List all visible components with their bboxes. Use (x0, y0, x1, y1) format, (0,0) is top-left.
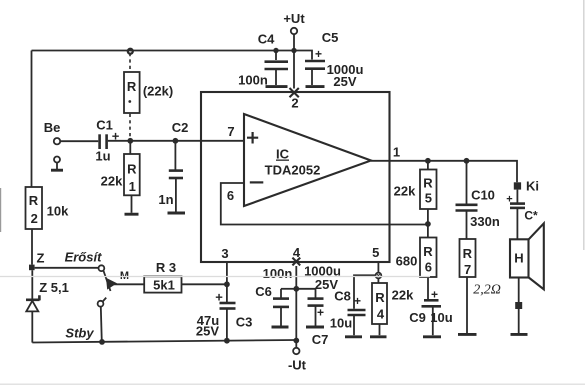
node feedback junction (425, 221, 431, 227)
node Ki square (514, 182, 521, 189)
resistor R1 (101, 143, 140, 213)
wire to C7 (296, 288, 315, 290)
wire pin 4 down to -Ut (295, 266, 297, 348)
svg-text:C2: C2 (172, 120, 189, 135)
terminal -Ut (293, 348, 299, 354)
svg-text:25V: 25V (333, 74, 356, 89)
scan artifact left edge mark (0, 188, 1, 232)
svg-text:5: 5 (425, 191, 432, 206)
node Z square (29, 265, 35, 271)
svg-text:+: + (317, 306, 324, 320)
terminal +Ut (291, 28, 297, 34)
wire Be to C1 (60, 140, 98, 142)
terminal Be input (54, 138, 60, 144)
svg-text:R: R (375, 290, 385, 305)
svg-text:Be: Be (44, 120, 61, 135)
svg-text:2,2Ω: 2,2Ω (473, 283, 501, 298)
node -Ut junction (293, 338, 299, 344)
svg-text:100n: 100n (263, 266, 293, 281)
svg-text:2: 2 (291, 96, 298, 111)
resistor R6 (396, 238, 437, 301)
wire switch M to R3 (114, 283, 145, 285)
svg-text:680: 680 (396, 254, 418, 269)
svg-text:C7: C7 (312, 332, 329, 347)
svg-text:5k1: 5k1 (153, 277, 175, 292)
node Stby junction (99, 339, 105, 345)
node C2 junction (173, 138, 179, 144)
svg-text:10u: 10u (330, 316, 352, 331)
capacitor C5 (305, 30, 363, 89)
capacitor C7 (304, 264, 341, 348)
ground C4 (266, 85, 288, 88)
ground C2 (168, 212, 186, 215)
svg-text:C6: C6 (255, 284, 272, 299)
wire switch to Stby rail (101, 307, 102, 342)
resistor R2 (26, 187, 70, 229)
svg-text:Stby: Stby (65, 326, 94, 341)
wire output pin 1 (371, 161, 517, 183)
svg-text:C*: C* (524, 209, 538, 223)
wire square to ground (518, 309, 520, 333)
svg-text:1u: 1u (95, 149, 110, 164)
svg-text:R: R (127, 162, 137, 177)
op-amp U1 triangle (244, 114, 371, 206)
speaker H (510, 223, 544, 289)
node input junction (127, 138, 133, 144)
scan artifact bottom edge (0, 383, 585, 385)
svg-text:R: R (423, 176, 433, 191)
svg-text:-Ut: -Ut (288, 358, 307, 373)
svg-text:7: 7 (227, 124, 234, 139)
svg-text:R: R (423, 244, 433, 259)
switch lower contact (98, 301, 104, 307)
ground C8 (345, 335, 362, 338)
IC box outline (201, 92, 390, 262)
node R5 junction (425, 158, 431, 164)
svg-text:C1: C1 (96, 118, 113, 133)
zener diode Z 5,1 (26, 280, 69, 311)
svg-text:(22k): (22k) (143, 84, 173, 99)
pin 2 X mark (290, 88, 299, 97)
capacitor C3 (196, 290, 252, 341)
wire +Ut to pin 2 (293, 34, 295, 88)
svg-text:6: 6 (227, 188, 234, 203)
switch arm (103, 271, 110, 292)
svg-text:1: 1 (393, 145, 400, 160)
wire Erosit line (35, 267, 99, 269)
scan artifact faint line (0, 276, 430, 278)
svg-text:3: 3 (221, 246, 228, 261)
svg-text:7: 7 (464, 262, 471, 277)
wire pin6 feedback (221, 183, 428, 225)
node junction C4 on rail (273, 48, 278, 53)
ground R7 (458, 333, 477, 336)
ground R1 (125, 213, 139, 216)
scan artifact right edge (583, 0, 585, 250)
wire Z to zener (31, 270, 33, 299)
capacitor C* (506, 194, 538, 240)
svg-text:22k: 22k (392, 288, 414, 303)
svg-text:+: + (354, 294, 361, 308)
node C3 bottom junction (224, 338, 230, 344)
ground R4 (370, 335, 387, 338)
ground C6 (272, 326, 289, 329)
wire pin 3 down (226, 262, 228, 302)
wire dashed R* upper (129, 53, 131, 72)
svg-text:1n: 1n (158, 192, 173, 207)
svg-text:C9: C9 (409, 310, 426, 325)
wire C1 to op-amp input (108, 140, 244, 142)
wire pin 5 down (377, 262, 379, 273)
node junction R* on rail (128, 49, 133, 54)
svg-text:4: 4 (377, 307, 385, 322)
capacitor C8 (330, 289, 366, 336)
svg-text:10k: 10k (47, 204, 69, 219)
svg-text:+: + (315, 47, 322, 61)
svg-text:Z 5,1: Z 5,1 (39, 280, 69, 295)
wire R3 to pin3 line (182, 283, 227, 285)
svg-text:25V: 25V (196, 324, 219, 339)
ground C7 (306, 326, 324, 329)
svg-text:C3: C3 (236, 314, 253, 329)
svg-text:IC: IC (276, 147, 290, 162)
terminal Be shield (54, 157, 60, 163)
wire left rail R2 branch (31, 51, 33, 187)
ground C9 (423, 335, 441, 338)
wire Ki to C* (516, 190, 518, 203)
svg-text:R: R (463, 246, 473, 261)
svg-text:22k: 22k (394, 184, 416, 199)
capacitor C1 (95, 118, 119, 164)
resistor R4 (372, 278, 414, 335)
svg-text:5: 5 (372, 245, 379, 260)
svg-text:Z: Z (37, 251, 45, 266)
node pin 5 circle (376, 273, 382, 279)
pin 4 X mark (292, 258, 300, 266)
svg-text:100n: 100n (238, 73, 268, 88)
wire to C6 (281, 288, 296, 290)
wire pin5 to C8 (354, 275, 376, 309)
svg-text:R 3: R 3 (156, 260, 176, 275)
svg-text:Ki: Ki (526, 179, 539, 194)
op-amp labels (247, 132, 320, 182)
capacitor C4 (238, 32, 288, 88)
wire dashed R* lower (129, 114, 131, 138)
capacitor C10 (456, 161, 500, 239)
node C10 junction (464, 158, 470, 164)
svg-text:C5: C5 (322, 30, 339, 45)
svg-text:C8: C8 (334, 289, 351, 304)
capacitor C9 (409, 288, 453, 336)
svg-text:C4: C4 (258, 32, 275, 47)
svg-text:22k: 22k (101, 174, 123, 189)
svg-text:TDA2052: TDA2052 (265, 163, 321, 178)
node pin4 junction (293, 286, 299, 292)
wire bottom -Ut rail (32, 340, 296, 343)
node speaker square (515, 302, 522, 309)
resistor R7 (460, 239, 501, 333)
ground C5 (306, 85, 325, 88)
resistor R3 5k1 (144, 260, 181, 293)
svg-text:R: R (127, 79, 137, 94)
wire H to square (518, 278, 520, 303)
capacitor C6 (255, 266, 292, 326)
svg-text:Erősít: Erősít (65, 250, 103, 265)
switch M pivot (99, 265, 105, 271)
resistor R* (22k) (124, 72, 173, 113)
wire top +Ut rail (32, 51, 313, 60)
node junction +Ut on rail (291, 48, 296, 53)
node R3 junction (224, 281, 230, 287)
svg-text:330n: 330n (470, 214, 500, 229)
svg-text:H: H (514, 251, 523, 266)
wire zener to bottom rail (31, 311, 33, 342)
svg-text:1: 1 (129, 179, 136, 194)
svg-text:10u: 10u (430, 310, 452, 325)
ground H (511, 333, 528, 336)
svg-text:R: R (29, 193, 39, 208)
svg-text:+Ut: +Ut (283, 11, 305, 26)
ground Be (56, 163, 58, 169)
capacitor C2 (158, 120, 188, 212)
svg-text:6: 6 (425, 260, 432, 275)
svg-text:2: 2 (31, 211, 38, 226)
wire R2 to Z node (31, 229, 33, 265)
svg-text:C10: C10 (471, 188, 495, 203)
resistor R5 (394, 161, 437, 238)
